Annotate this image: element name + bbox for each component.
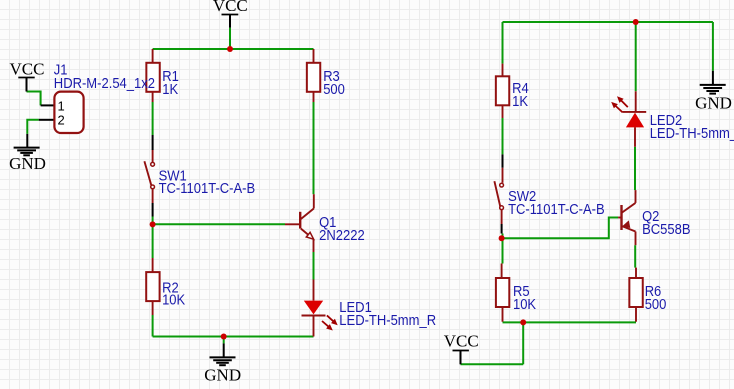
svg-text:1K: 1K: [512, 94, 528, 110]
svg-text:HDR-M-2.54_1x2: HDR-M-2.54_1x2: [54, 76, 155, 92]
svg-text:BC558B: BC558B: [642, 222, 690, 238]
svg-text:GND: GND: [9, 154, 46, 173]
svg-text:TC-1101T-C-A-B: TC-1101T-C-A-B: [508, 202, 605, 218]
svg-text:1: 1: [58, 98, 65, 113]
svg-text:VCC: VCC: [213, 0, 248, 15]
svg-text:LED-TH-5mm_R: LED-TH-5mm_R: [339, 313, 436, 329]
svg-text:500: 500: [645, 297, 667, 313]
svg-text:2N2222: 2N2222: [319, 228, 365, 244]
svg-text:10K: 10K: [513, 297, 536, 313]
svg-text:1K: 1K: [162, 82, 178, 98]
svg-text:2: 2: [58, 113, 65, 128]
svg-text:TC-1101T-C-A-B: TC-1101T-C-A-B: [159, 181, 256, 197]
svg-text:VCC: VCC: [10, 60, 45, 79]
svg-text:VCC: VCC: [444, 331, 479, 350]
svg-text:LED-TH-5mm_: LED-TH-5mm_: [650, 126, 734, 142]
svg-text:500: 500: [323, 82, 345, 98]
svg-text:GND: GND: [695, 94, 732, 113]
svg-text:GND: GND: [204, 365, 241, 384]
svg-text:10K: 10K: [162, 293, 185, 309]
